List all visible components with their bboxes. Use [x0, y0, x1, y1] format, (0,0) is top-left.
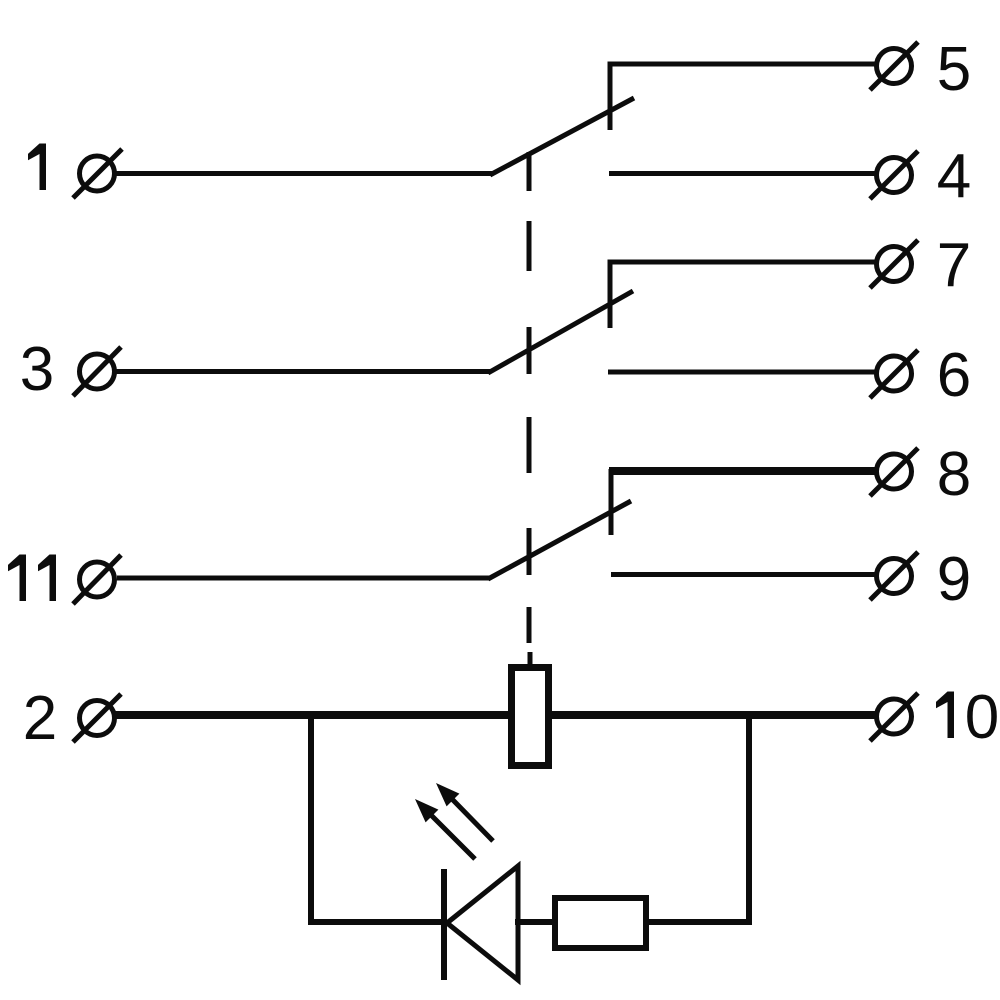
LED D1 cathode bar: [441, 869, 447, 980]
LED arrow 1: [415, 799, 475, 859]
terminal 3: [73, 347, 121, 396]
LED arrow 2: [436, 783, 493, 841]
switch blade S2: [488, 291, 633, 373]
pin label 1: [28, 144, 46, 191]
wire throw 8 (bold): [609, 467, 876, 475]
switch blade S3: [488, 501, 631, 579]
svg-text:3: 3: [20, 335, 54, 404]
resistor R1: [555, 898, 646, 948]
pin label 11: [8, 555, 26, 602]
wire pole 3: [116, 369, 490, 374]
coil K1: [512, 668, 549, 766]
svg-text:4: 4: [937, 142, 971, 211]
svg-text:5: 5: [937, 35, 971, 104]
wire throw 5: [610, 64, 876, 130]
wire branch left vertical: [308, 715, 314, 925]
wire bus 2 to 10 (bold): [115, 711, 877, 719]
svg-text:6: 6: [937, 341, 971, 410]
switch blade S1: [490, 98, 634, 175]
wire branch bottom left: [308, 919, 446, 925]
wire resistor to right branch: [646, 919, 752, 925]
wire throw 8 vertical: [609, 469, 614, 535]
wire LED to resistor: [515, 919, 557, 925]
wire pole 11: [117, 576, 490, 581]
terminal 4: [870, 151, 918, 199]
terminal 9: [870, 552, 918, 600]
terminal 10: [870, 693, 918, 741]
terminal 1: [73, 149, 122, 198]
wire pole 1: [116, 171, 492, 176]
LED D1 triangle: [447, 866, 518, 980]
mechanical linkage dashed line: [529, 152, 530, 666]
terminal 5: [870, 42, 918, 90]
wire throw 9: [611, 572, 876, 577]
pin label 10: [936, 692, 954, 739]
svg-text:2: 2: [23, 684, 57, 753]
wire branch right vertical: [746, 715, 752, 925]
svg-text:7: 7: [937, 231, 971, 300]
svg-text:0: 0: [965, 683, 999, 752]
wire throw 6: [608, 370, 876, 375]
terminal 2: [73, 694, 121, 742]
svg-text:9: 9: [937, 545, 971, 614]
wire throw 7: [610, 262, 876, 328]
terminal 11: [73, 555, 121, 604]
wire throw 4: [609, 171, 876, 176]
terminal 7: [870, 240, 918, 288]
svg-text:8: 8: [937, 440, 971, 509]
terminal 6: [870, 350, 918, 398]
terminal 8: [870, 448, 918, 496]
